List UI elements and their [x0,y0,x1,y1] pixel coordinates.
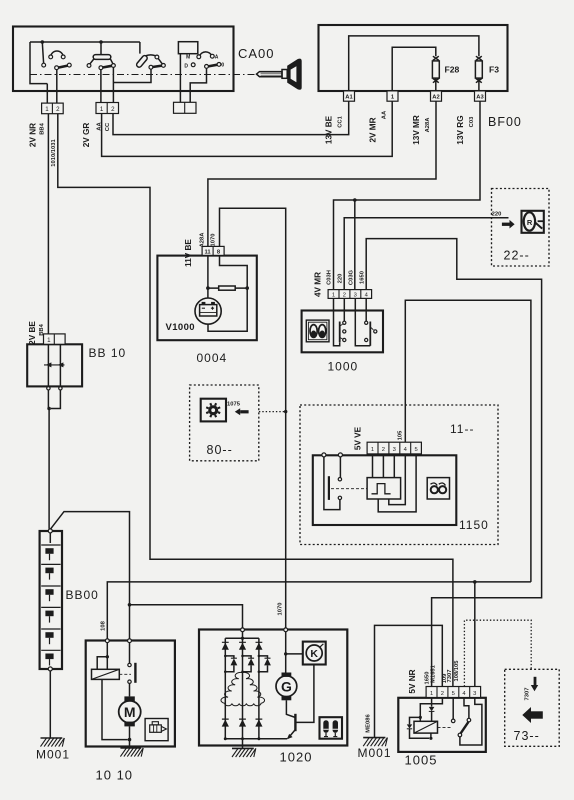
svg-text:C03: C03 [469,116,475,127]
CA00 contact set 2 (ignition) [87,42,115,103]
svg-text:22--: 22-- [504,249,530,263]
svg-text:7307: 7307 [447,670,453,683]
svg-text:1005: 1005 [405,753,438,768]
labels 5V VE / 105 [354,426,404,450]
svg-text:1075: 1075 [227,401,241,407]
wire 220 (unit 1000 pin2 to page 22) [344,218,508,290]
BF00 tab A3 [475,91,486,101]
svg-text:BB 10: BB 10 [89,346,127,360]
1150 pulse generator [367,454,416,512]
wire 1010/1031-109 (CA00 pin2 to relay 1005 pin5) [58,114,453,687]
svg-text:80--: 80-- [207,443,233,457]
svg-text:A1: A1 [345,95,353,101]
CA00 mechanical axis (dash-dot) [30,74,256,76]
1010 pinion icon [145,719,168,741]
svg-text:4V MR: 4V MR [314,272,323,297]
labels 4V MR / C03H / 220 / C03G / 1650 [314,269,366,297]
svg-text:2: 2 [111,106,115,113]
svg-text:1000: 1000 [328,360,359,374]
wire 1070 (module 0004 pin8 to alternator 1020) [220,208,286,628]
1150 terminals and switch [322,453,367,510]
svg-text:M: M [186,55,190,61]
label 1150 [459,518,489,532]
connector 2V GR (pins 1,2) [96,103,119,114]
1020 transistor [286,665,314,740]
svg-text:108/105: 108/105 [454,660,460,682]
svg-text:1150: 1150 [459,518,489,532]
svg-text:10 10: 10 10 [96,768,134,783]
label BB00 [66,588,99,602]
1150 coil icon [427,478,449,499]
label 2V GR / AA / CC [82,122,111,148]
svg-text:V1000: V1000 [166,322,195,333]
svg-text:M001: M001 [358,746,392,760]
1020 exciter G [276,673,297,701]
1000 hour counter icon [306,320,329,342]
svg-text:5: 5 [414,447,417,453]
junction box BB10 [27,344,82,390]
labels 5V NR / 1650 / M1651 / 109 / 7307 / 108-105 [408,660,460,694]
wire 105 (module 1150 pin4 to node 108/105) [405,300,531,582]
svg-text:13V BE: 13V BE [325,115,334,144]
svg-text:1010/1031: 1010/1031 [51,139,57,167]
wire 108 (starter 1010 to node 108/105) [101,582,531,640]
ground M001 (ME086, relay 1005) [358,738,392,760]
wire AA (CA00 2V GR pin1 to BF00 tab 1) [102,101,393,156]
svg-text:11--: 11-- [450,422,474,436]
label 1005 [405,753,438,768]
svg-text:11: 11 [205,249,212,255]
svg-text:BF00: BF00 [488,115,522,129]
svg-text:13V RG: 13V RG [456,115,465,144]
CA00 contact set 4 (start, M/A/D) [178,42,224,103]
1020 regulator K [284,632,326,673]
label 2V BE / BB4 [28,321,45,345]
svg-text:K: K [310,648,318,660]
0004 internal circuit with resistor [206,255,249,331]
svg-text:2V BE: 2V BE [28,321,37,345]
BF00 tab 1 [387,91,398,101]
CA00 internal supply bus [30,40,140,103]
1010 starter relay coil [92,643,132,742]
svg-text:73--: 73-- [514,729,540,743]
svg-text:3: 3 [354,292,357,298]
fuse box BF00 [319,25,508,91]
svg-text:F3: F3 [489,65,499,75]
svg-text:220: 220 [492,212,502,218]
svg-text:1070: 1070 [277,603,283,616]
BF00 internal feed loops [349,36,479,91]
svg-text:CA00: CA00 [238,46,275,61]
1000 connector (pins 1-4) [328,290,372,299]
svg-text:C03H: C03H [327,270,333,285]
BB10 connector (pin 1) [44,334,66,344]
1005 switch contact [438,698,482,746]
battery BB00 [40,529,62,671]
label 2V NR / BB4 / 1010-1031 [29,122,57,166]
connector 2V NR (pins 1,2) [42,103,64,114]
labels 2V MR / AA [369,110,388,143]
svg-text:2V MR: 2V MR [369,117,378,142]
BF00 tab A1 [344,91,355,101]
wire BB4 (CA00 pin1 to BB10) [47,114,49,334]
wire battery negative to ground M001 [49,671,51,738]
svg-text:2: 2 [441,691,444,697]
svg-text:D: D [184,64,188,70]
ignition switch CA00 [13,27,234,92]
svg-text:BB00: BB00 [66,588,99,602]
svg-text:1: 1 [430,691,433,697]
page reference 80 (dashed box) [190,385,259,461]
svg-text:0004: 0004 [197,351,228,365]
svg-text:ME086: ME086 [366,714,372,733]
1150 connector (pins 1-5) [367,442,421,454]
label 1020 [280,750,313,765]
label 1075 with arrow [227,401,249,415]
fuse F28 [432,56,459,91]
svg-text:13V MR: 13V MR [412,115,421,145]
svg-text:3: 3 [393,447,396,453]
1020 ground drop [242,739,244,749]
svg-text:2V NR: 2V NR [29,123,38,147]
BF00 tab A2 [431,91,442,101]
svg-text:A28A: A28A [200,232,206,248]
svg-text:BB4: BB4 [40,122,46,134]
1010 starter motor M [119,696,141,748]
wire A28A (BF00 A2 to module 0004 pin 11) [208,101,436,246]
page reference 11 (dashed box) [300,405,498,545]
svg-text:A3: A3 [476,95,484,101]
svg-text:1070: 1070 [211,234,217,247]
instrument unit 1000 [302,311,383,353]
svg-text:M: M [124,704,136,720]
ignition key [257,59,302,90]
module 0004 (voltmeter) [157,256,256,341]
label 1010 [96,768,134,783]
wire battery positive to starter and alternator [50,512,242,639]
ground (alternator 1020) [232,748,256,757]
wire M1651 (relay 1005 pin2 to ground ME086) [366,625,443,737]
page reference 22 (dashed box) [492,189,550,267]
labels 13V BE / CC1 [325,115,344,144]
svg-text:A: A [215,54,219,60]
svg-text:A28A: A28A [425,117,431,133]
page reference 73 (dashed box) [505,669,560,746]
1005 connector (pins 1,2,5,4,3) [426,687,481,698]
1020 brushes icon [320,717,343,739]
svg-text:0: 0 [221,63,224,69]
label 220 with arrow [492,212,515,229]
wire C03 (BF00 A3 to unit 1000 pins 1,3) [334,101,481,289]
svg-text:1650: 1650 [360,271,366,284]
label CA00 [238,46,275,61]
voltmeter V1000 [166,298,222,333]
label 73-- [514,729,540,743]
svg-text:2: 2 [382,447,385,453]
1020 rectifier diodes [222,632,288,741]
ground (starter 1010) [120,748,143,757]
wire 1075 (dotted tap to page 80) [259,410,288,413]
1000 switch contacts pins 1-2 [334,298,346,345]
svg-text:C03G: C03G [349,269,355,285]
starter unit 1010 [86,639,175,747]
1005 relay coil with diodes [407,698,443,740]
svg-text:11V BE: 11V BE [184,239,193,267]
22 warning lamp icon [522,211,544,233]
1020 stator winding [221,672,265,705]
CA00 contact set 3 (moving contact) [113,42,165,83]
svg-text:BB4: BB4 [39,323,45,335]
label 22-- [504,249,530,263]
label BB10 [89,346,127,360]
alternator 1020 [199,628,347,746]
label 7307 with down arrow [525,677,539,701]
svg-text:5V VE: 5V VE [354,426,363,450]
wire 108/105 drop to 1005 pin3 [473,580,477,686]
labels 13V MR / A28A [412,115,431,145]
svg-text:2: 2 [56,106,60,113]
label 80-- [207,443,233,457]
svg-text:1020: 1020 [280,750,313,765]
svg-text:108: 108 [101,620,107,630]
svg-text:7307: 7307 [525,688,531,701]
svg-text:A2: A2 [432,95,439,101]
80 gear icon [201,399,226,422]
fuse F3 [475,56,499,91]
svg-text:2V GR: 2V GR [82,123,91,148]
svg-text:M001: M001 [36,748,70,762]
svg-text:1: 1 [371,447,374,453]
1010 solenoid contact [128,643,136,697]
labels 11V BE / A28A / 1070 [184,232,217,267]
label BF00 [488,115,522,129]
wire 7307 (dotted, relay 1005 pin4 to page 73) [464,620,531,686]
ground M001 (battery) [36,738,70,762]
svg-text:105: 105 [398,430,404,440]
73 left arrow [522,707,543,723]
svg-text:1: 1 [100,106,104,113]
svg-text:2: 2 [343,292,346,298]
wire CC (CA00 2V GR pin2 to BF00 A1) [113,101,349,134]
svg-text:5V NR: 5V NR [408,669,417,693]
labels 13V RG / C03 [456,115,475,144]
wire BB10 to battery BB00 [47,390,60,529]
svg-text:F28: F28 [445,65,460,75]
1000 switch contacts pins 3-4 [355,298,377,345]
svg-text:M1651: M1651 [430,664,436,683]
module 1150 [313,455,457,525]
svg-text:G: G [281,678,292,694]
0004 connector (pins 11,8) [202,246,224,255]
svg-text:1: 1 [332,292,335,298]
CA00 contact set 1 (accessory) [42,42,71,103]
svg-text:1: 1 [45,106,49,113]
relay 1005 [398,698,486,752]
CA00 auxiliary twin connector [174,102,197,113]
wire 1650 (unit 1000 pin4 to relay 1005 pin1) [366,239,541,687]
svg-text:CC: CC [105,122,111,131]
svg-text:1: 1 [47,337,51,344]
svg-text:3: 3 [473,691,476,697]
svg-text:R: R [527,218,533,227]
svg-text:5: 5 [452,691,455,697]
svg-text:CC1: CC1 [338,115,344,127]
svg-text:AA: AA [382,110,388,119]
label 0004 [197,351,228,365]
label 1000 [328,360,359,374]
svg-text:220: 220 [338,274,344,284]
